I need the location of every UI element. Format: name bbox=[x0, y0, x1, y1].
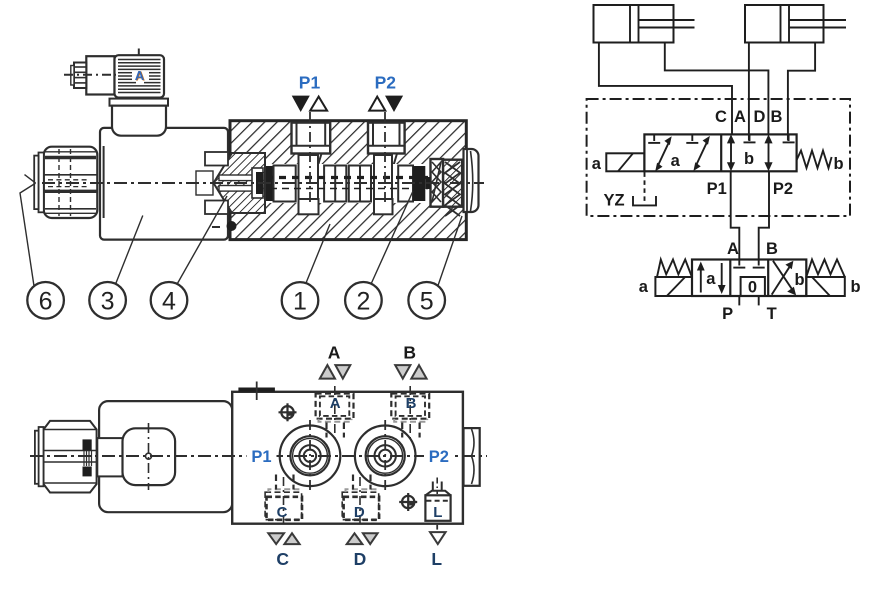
svg-text:a: a bbox=[706, 270, 716, 288]
svg-text:a: a bbox=[671, 152, 681, 170]
svg-text:0: 0 bbox=[748, 279, 757, 297]
svg-text:P1: P1 bbox=[707, 180, 727, 198]
svg-text:L: L bbox=[431, 549, 442, 569]
svg-text:A: A bbox=[328, 343, 341, 363]
svg-text:b: b bbox=[794, 271, 804, 289]
svg-text:B: B bbox=[766, 240, 778, 258]
svg-text:1: 1 bbox=[293, 287, 307, 315]
svg-text:A: A bbox=[135, 68, 145, 83]
svg-text:a: a bbox=[592, 155, 602, 173]
svg-text:b: b bbox=[744, 150, 754, 168]
svg-text:C: C bbox=[715, 108, 727, 126]
svg-text:C: C bbox=[277, 504, 288, 521]
svg-text:4: 4 bbox=[162, 287, 176, 315]
svg-text:P2: P2 bbox=[375, 73, 397, 93]
svg-text:5: 5 bbox=[420, 287, 434, 315]
svg-text:P2: P2 bbox=[429, 448, 449, 466]
svg-text:b: b bbox=[850, 278, 860, 296]
svg-text:T: T bbox=[767, 305, 777, 323]
svg-text:6: 6 bbox=[39, 287, 53, 315]
svg-text:L: L bbox=[433, 504, 442, 521]
svg-text:D: D bbox=[754, 108, 766, 126]
svg-text:A: A bbox=[330, 395, 341, 412]
svg-text:A: A bbox=[727, 240, 739, 258]
svg-text:a: a bbox=[639, 278, 649, 296]
svg-text:D: D bbox=[354, 504, 365, 521]
svg-text:A: A bbox=[734, 108, 746, 126]
svg-text:C: C bbox=[276, 549, 289, 569]
svg-text:2: 2 bbox=[356, 287, 370, 315]
svg-text:B: B bbox=[403, 343, 416, 363]
svg-text:D: D bbox=[354, 549, 367, 569]
svg-text:P: P bbox=[722, 305, 733, 323]
svg-text:B: B bbox=[406, 395, 417, 412]
svg-text:P2: P2 bbox=[773, 180, 793, 198]
svg-text:YZ: YZ bbox=[603, 192, 624, 210]
svg-text:b: b bbox=[833, 155, 843, 173]
svg-text:3: 3 bbox=[101, 287, 115, 315]
svg-text:P1: P1 bbox=[299, 73, 321, 93]
svg-text:B: B bbox=[771, 108, 783, 126]
svg-text:P1: P1 bbox=[251, 448, 271, 466]
